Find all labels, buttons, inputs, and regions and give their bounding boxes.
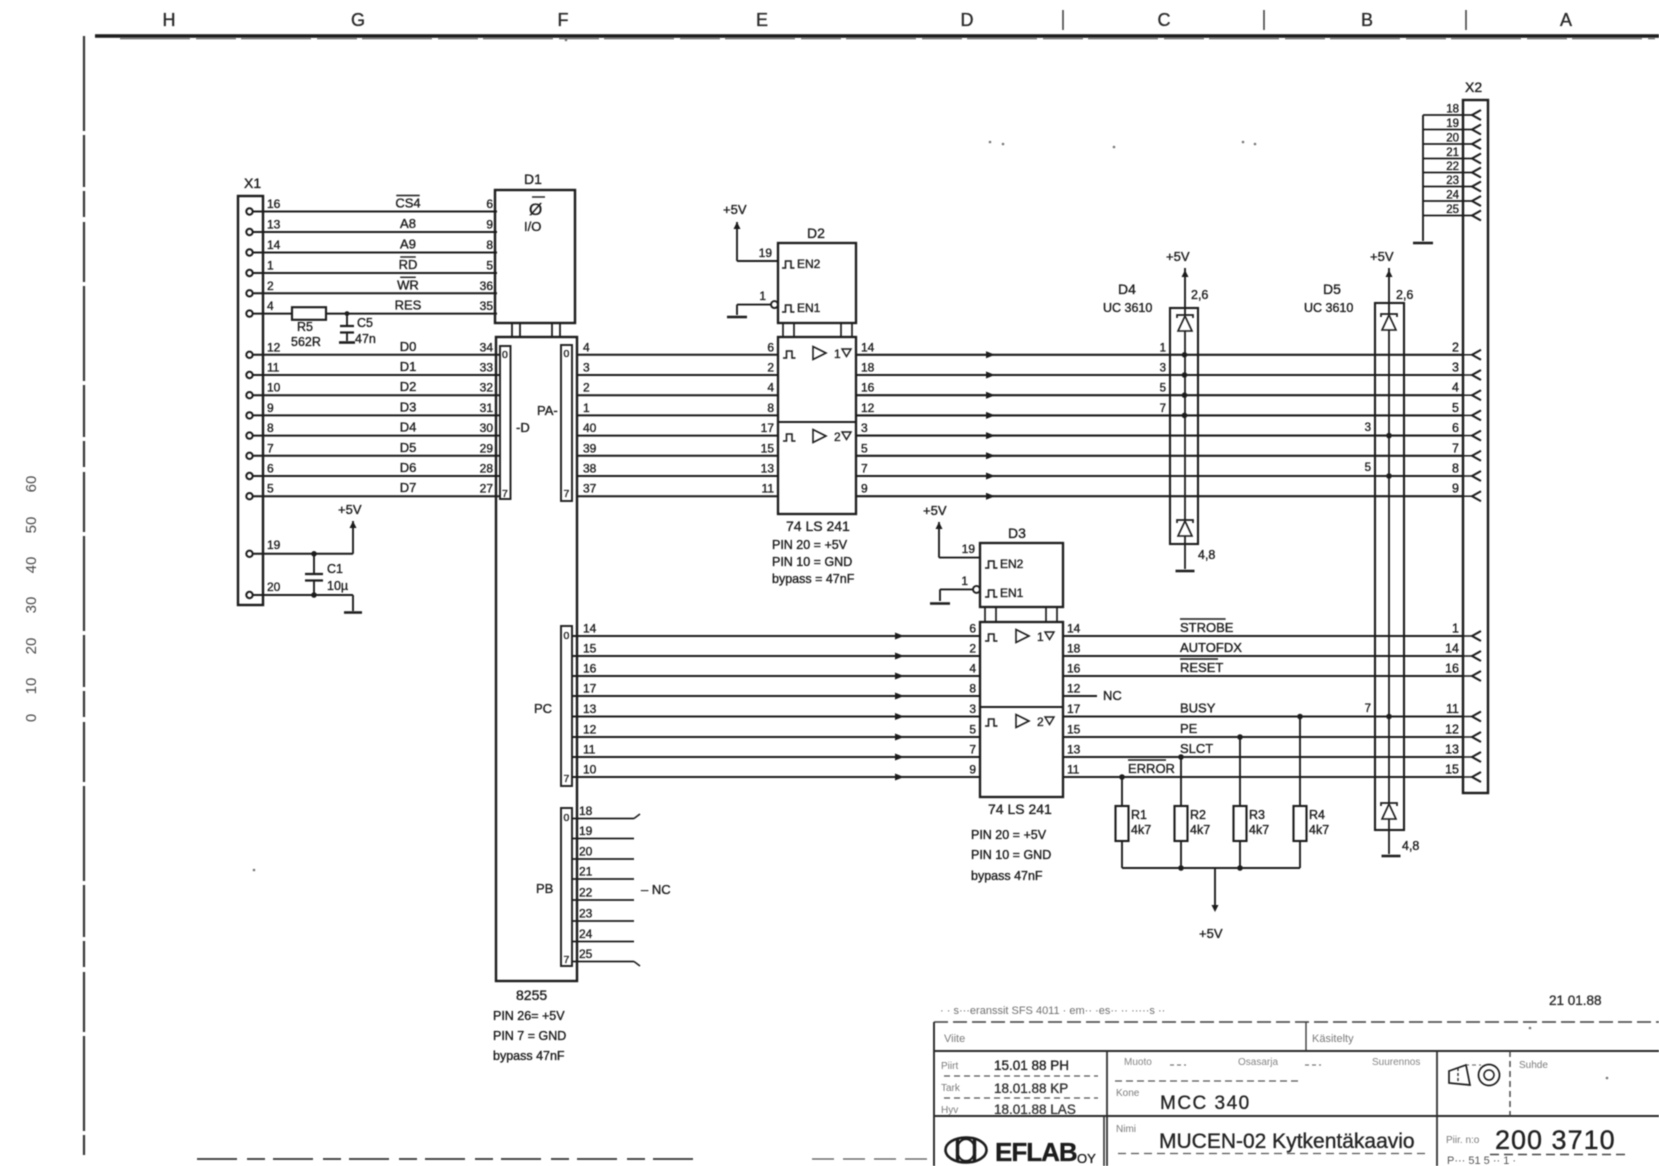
svg-text:2: 2 [767, 361, 774, 375]
svg-text:18: 18 [861, 361, 875, 375]
svg-text:18: 18 [579, 804, 593, 818]
junction D5 pin 5 [1386, 473, 1392, 479]
svg-text:11: 11 [762, 482, 775, 496]
wire D3 out 11 to X2 pin 15 [1063, 776, 1463, 778]
diode D5 lower [1381, 803, 1397, 806]
X2 data pin contact [1472, 491, 1481, 501]
X2 data pin contact [1472, 410, 1481, 420]
title block row border [934, 1050, 1659, 1052]
svg-text:6: 6 [969, 622, 976, 636]
D2 group2 buffer triangle [813, 430, 826, 443]
wire X2 pin 24 to ground bus [1423, 200, 1472, 202]
svg-text:PE: PE [1180, 721, 1198, 736]
svg-text:PB: PB [536, 881, 553, 896]
connector X1 body [238, 196, 263, 605]
D3 buffer body [980, 622, 1063, 797]
X2 status pin contact [1472, 772, 1481, 782]
svg-text:21: 21 [1446, 147, 1459, 159]
resistor R1 [1116, 806, 1129, 841]
svg-text:30: 30 [23, 597, 40, 614]
svg-text:38: 38 [583, 462, 597, 476]
X1 pin 16 contact [246, 208, 252, 214]
D2 pin 1 negation bubble [771, 301, 778, 308]
svg-text:E: E [756, 10, 768, 30]
junction R4 top [1297, 714, 1303, 720]
svg-text:20: 20 [23, 638, 40, 655]
X2 data pin contact [1472, 471, 1481, 481]
svg-text:4k7: 4k7 [1249, 823, 1269, 837]
wire direction arrow [895, 734, 904, 741]
svg-text:0: 0 [564, 812, 570, 824]
svg-text:PC: PC [534, 701, 552, 716]
svg-text:19: 19 [759, 246, 773, 260]
svg-text:29: 29 [480, 441, 494, 455]
D3 group2 tri-state symbol [1045, 717, 1054, 725]
D2 group divider [778, 421, 856, 423]
wire D1 PB pin 24 (n.c.) [572, 941, 634, 943]
D3 pin 1 negation bubble [973, 586, 980, 593]
wire X1 pin 13 to D1 (A8) [253, 231, 497, 233]
X2 pin 22 contact [1472, 168, 1481, 178]
svg-text:D0: D0 [400, 339, 417, 354]
svg-text:I/O: I/O [524, 219, 541, 234]
svg-text:D6: D6 [400, 460, 417, 475]
scan specks [989, 141, 992, 144]
svg-text:STROBE: STROBE [1180, 620, 1234, 635]
junction R2 top [1178, 754, 1184, 760]
svg-text:D4: D4 [1118, 281, 1136, 297]
svg-text:13: 13 [583, 702, 597, 716]
D2 buffer body [778, 337, 856, 514]
PB wire end tick [634, 962, 640, 967]
X1 pin 13 contact [246, 229, 252, 235]
title block top border [934, 1021, 1659, 1023]
svg-text:MUCEN-02 Kytkentäkaavio: MUCEN-02 Kytkentäkaavio [1159, 1130, 1415, 1153]
svg-text:7: 7 [1452, 441, 1459, 455]
X1 pin 11 contact [246, 372, 252, 378]
wire X1 pin 6 to D1 (D6) [253, 475, 500, 477]
svg-text:bypass = 47nF: bypass = 47nF [772, 572, 855, 586]
svg-text:BUSY: BUSY [1180, 701, 1216, 716]
svg-text:PA-: PA- [537, 403, 558, 418]
resistor R2 [1175, 806, 1188, 841]
wire direction arrow [895, 693, 904, 700]
svg-text:R1: R1 [1131, 808, 1147, 822]
svg-text:· · s···eranssit SFS 4011 ·: · · s···eranssit SFS 4011 · em·· ·es·· ·… [940, 1005, 1165, 1017]
X1 pin 4 contact [246, 310, 252, 316]
diode D4 upper [1177, 315, 1193, 318]
wire D1 PC5 to D3 [572, 736, 980, 738]
svg-text:+5V: +5V [723, 202, 747, 217]
wire rail to +5V [1214, 868, 1216, 905]
svg-text:40: 40 [583, 421, 597, 435]
svg-text:D1: D1 [524, 171, 542, 187]
wire D1 PB pin 19 (n.c.) [572, 838, 634, 840]
connector X2 body [1463, 100, 1488, 793]
wire X1 pin 5 to D1 (D7) [253, 495, 500, 497]
svg-text:7: 7 [502, 488, 508, 500]
svg-text:7: 7 [564, 954, 570, 966]
wire X2 pin 22 to ground bus [1423, 172, 1472, 174]
svg-text:PIN 20 = +5V: PIN 20 = +5V [971, 828, 1047, 842]
svg-text:UC 3610: UC 3610 [1304, 301, 1353, 315]
svg-text:14: 14 [583, 622, 597, 636]
wire X1 pin 16 to D1 (CS4) [253, 211, 497, 213]
wire D4 to ground [1184, 536, 1186, 569]
svg-text:8: 8 [486, 238, 493, 252]
border left edge [83, 36, 85, 1155]
wire R2 bottom stub [1180, 841, 1182, 868]
svg-text:9: 9 [486, 218, 493, 232]
svg-text:1: 1 [267, 259, 274, 273]
X2 status pin contact [1472, 752, 1481, 762]
wire X2 pin 18 to ground bus [1423, 114, 1472, 116]
D2 EN2 hysteresis symbol [782, 261, 795, 268]
svg-text:7: 7 [969, 743, 976, 757]
title divider dates/middle [1106, 1051, 1108, 1166]
svg-text:NC: NC [1103, 688, 1122, 703]
svg-text:18.01.88 LAS: 18.01.88 LAS [994, 1102, 1076, 1117]
wire X1 pin 1 to D1 (RD) [253, 272, 497, 274]
wire direction arrow [895, 713, 904, 720]
svg-text:PIN 10 = GND: PIN 10 = GND [772, 555, 852, 569]
D2 enable block neck [782, 323, 784, 337]
svg-text:11: 11 [267, 361, 280, 375]
svg-text:1: 1 [583, 401, 590, 415]
svg-text:UC 3610: UC 3610 [1103, 301, 1152, 315]
svg-text:PIN 26= +5V: PIN 26= +5V [493, 1009, 565, 1023]
wire X1 pin 2 to D1 (WR) [253, 292, 497, 294]
svg-text:8: 8 [267, 421, 274, 435]
wire +5V into D4 [1184, 268, 1186, 315]
wire D1 PB pin 22 (n.c.) [572, 899, 634, 901]
title divider logo/name [1103, 1116, 1105, 1166]
dates divider 1 [944, 1075, 1098, 1077]
overline CS4 [396, 195, 419, 197]
wire D2 out 16 to X2 pin 4 [856, 394, 1463, 396]
wire X1 pin 20 to ground [253, 594, 353, 596]
+5V arrow (pull-up rail) [1212, 905, 1219, 912]
X2 pin 18 contact [1472, 110, 1481, 120]
junction rail R2 [1178, 865, 1184, 871]
svg-text:D: D [961, 10, 974, 30]
svg-text:D5: D5 [1323, 281, 1341, 297]
svg-text:B: B [1361, 10, 1373, 30]
svg-text:17: 17 [1067, 702, 1081, 716]
svg-text:74 LS 241: 74 LS 241 [786, 518, 850, 534]
svg-text:+5V: +5V [338, 502, 362, 517]
D3 enable block [980, 543, 1063, 607]
wire direction arrow [986, 452, 995, 459]
X1 pin 20 contact [246, 592, 252, 598]
capacitor C1 [313, 554, 315, 573]
wire D3 pin 19 [939, 557, 980, 559]
wire D2 pin 1 to ground [736, 305, 738, 315]
X2 pin 21 contact [1472, 154, 1481, 164]
svg-text:3: 3 [1452, 361, 1459, 375]
svg-text:562R: 562R [291, 335, 321, 349]
svg-text:CS4: CS4 [395, 196, 420, 211]
svg-text:10: 10 [583, 763, 597, 777]
D3 enable block neck [984, 607, 986, 622]
+5V arrow (D5) [1386, 270, 1393, 277]
svg-text:WR: WR [397, 277, 419, 292]
svg-text:G: G [351, 10, 365, 30]
svg-text:7: 7 [564, 773, 570, 785]
wire D1 PC2 to D3 [572, 675, 980, 677]
svg-text:10: 10 [267, 381, 281, 395]
svg-text:4: 4 [1452, 381, 1459, 395]
X1 pin 5 contact [246, 493, 252, 499]
svg-text:2,6: 2,6 [1396, 288, 1413, 302]
diode D5 upper [1381, 314, 1397, 317]
svg-text:6: 6 [486, 197, 493, 211]
svg-text:200 3710: 200 3710 [1495, 1125, 1616, 1155]
X2 status pin contact [1472, 671, 1481, 681]
svg-text:1: 1 [1452, 622, 1459, 636]
svg-text:ERROR: ERROR [1128, 761, 1175, 776]
D2 group1 hysteresis [783, 351, 796, 358]
svg-text:19: 19 [1446, 118, 1459, 130]
overline ERROR [1128, 759, 1166, 761]
D2 group1 buffer triangle [813, 347, 826, 360]
svg-text:Suhde: Suhde [1519, 1060, 1548, 1071]
junction D4 pin 7 [1182, 413, 1188, 419]
svg-text:2: 2 [1037, 715, 1044, 729]
D1 port box PB [561, 808, 572, 966]
svg-text:24: 24 [579, 927, 593, 941]
X2 status pin contact [1472, 631, 1481, 641]
junction C5 on RES wire [345, 311, 350, 316]
wire D3 out 18 to X2 pin 14 [1063, 655, 1463, 657]
wire D2 pin 1 [737, 304, 771, 306]
svg-text:30: 30 [480, 421, 494, 435]
wire X1 pin 12 to D1 (D0) [253, 354, 500, 356]
svg-text:EN1: EN1 [797, 301, 821, 315]
svg-text:12: 12 [861, 401, 875, 415]
svg-text:18.01.88 KP: 18.01.88 KP [994, 1081, 1068, 1096]
svg-text:14: 14 [861, 340, 875, 354]
overline RD [400, 256, 416, 258]
svg-text:2,6: 2,6 [1191, 288, 1208, 302]
X2 data pin contact [1472, 390, 1481, 400]
svg-text:16: 16 [1067, 662, 1081, 676]
svg-text:20: 20 [1446, 133, 1459, 145]
wire direction arrow [895, 653, 904, 660]
junction D4 pin 3 [1182, 372, 1188, 378]
junction R3 top [1237, 734, 1243, 740]
svg-text:9: 9 [267, 401, 274, 415]
wire D3 pin 12 (n.c.) [1063, 695, 1097, 697]
wire D1 PB pin 25 (n.c.) [572, 961, 634, 963]
svg-text:28: 28 [480, 462, 494, 476]
wire X2 pin 25 to ground bus [1423, 215, 1472, 217]
svg-text:20: 20 [579, 845, 593, 859]
svg-text:40: 40 [23, 557, 40, 574]
svg-text:36: 36 [480, 279, 494, 293]
svg-text:6: 6 [267, 462, 274, 476]
resistor R5 [292, 307, 326, 320]
svg-text:D2: D2 [400, 379, 417, 394]
svg-text:+5V: +5V [1166, 249, 1190, 264]
svg-text:PIN 20 = +5V: PIN 20 = +5V [772, 538, 848, 552]
svg-text:X1: X1 [244, 175, 261, 191]
border top ruler line [95, 34, 1659, 37]
wire D2 out 7 to X2 pin 8 [856, 475, 1463, 477]
wire R1 bottom stub [1121, 841, 1123, 868]
D1 data-bus port box D [500, 346, 511, 499]
name underline [1118, 1153, 1428, 1155]
ground (X2 pins 18-25) [1413, 242, 1433, 245]
svg-text:4: 4 [767, 381, 774, 395]
svg-text:4: 4 [267, 299, 274, 313]
svg-text:4k7: 4k7 [1190, 823, 1210, 837]
svg-text:4: 4 [583, 340, 590, 354]
title divider name/number [1436, 1051, 1438, 1166]
ground (D5) [1382, 855, 1401, 858]
wire D1 PB pin 18 (n.c.) [572, 818, 634, 820]
dates divider 2 [944, 1097, 1098, 1099]
wire D3 out 15 to X2 pin 12 [1063, 736, 1463, 738]
wire D3 out 14 to X2 pin 1 [1063, 635, 1463, 637]
svg-text:15: 15 [583, 642, 597, 656]
wire D3 pin 1 to ground [939, 589, 941, 601]
svg-text:1: 1 [834, 347, 841, 361]
svg-text:11: 11 [1067, 763, 1080, 777]
wire D1 PA2 to D2 [577, 394, 778, 396]
svg-text:0: 0 [502, 349, 508, 361]
svg-text:13: 13 [761, 462, 775, 476]
svg-text:25: 25 [579, 947, 593, 961]
D3 EN1 hysteresis symbol [985, 590, 998, 597]
svg-text:14: 14 [267, 238, 281, 252]
X1 pin 14 contact [246, 249, 252, 255]
wire +5V to D3 pin 19 [938, 522, 940, 558]
svg-text:P··· 51 5 ·· 1 ·: P··· 51 5 ·· 1 · [1447, 1155, 1516, 1166]
svg-text:7: 7 [1160, 403, 1166, 415]
junction R1 top [1119, 774, 1125, 780]
svg-text:15: 15 [761, 441, 775, 455]
svg-text:D4: D4 [400, 420, 417, 435]
svg-text:Ø: Ø [529, 200, 542, 219]
wire D1 PC7 to D3 [572, 776, 980, 778]
svg-text:bypass 47nF: bypass 47nF [971, 869, 1043, 883]
IC D5 body [1375, 303, 1404, 830]
svg-text:23: 23 [579, 907, 593, 921]
svg-text:A: A [1560, 10, 1572, 30]
svg-text:OY: OY [1077, 1151, 1096, 1166]
svg-text:Suurennos: Suurennos [1372, 1057, 1420, 1068]
svg-text:33: 33 [480, 361, 494, 375]
svg-text:19: 19 [962, 542, 976, 556]
wire X2 pin 23 to ground bus [1423, 186, 1472, 188]
wire D1 PA3 to D2 [577, 414, 778, 416]
wire R1 top stub [1121, 777, 1123, 806]
svg-text:D1: D1 [400, 359, 417, 374]
svg-text:74 LS 241: 74 LS 241 [988, 801, 1052, 817]
wire D2 out 14 to X2 pin 2 [856, 354, 1463, 356]
svg-text:RES: RES [395, 298, 422, 313]
D3 group divider [980, 706, 1063, 708]
D1 port box PA [561, 345, 572, 501]
X1 pin 8 contact [246, 432, 252, 438]
D3 group1 tri-state symbol [1045, 632, 1054, 640]
svg-text:19: 19 [267, 538, 281, 552]
D2 EN1 hysteresis symbol [782, 305, 795, 312]
svg-text:10µ: 10µ [327, 579, 348, 593]
svg-text:6: 6 [767, 340, 774, 354]
svg-text:3: 3 [969, 702, 976, 716]
D3 group1 buffer triangle [1016, 630, 1029, 643]
svg-text:50: 50 [23, 517, 40, 534]
svg-text:8: 8 [969, 682, 976, 696]
wire D1 PA0 to D2 [577, 354, 778, 356]
wire +5V into D5 [1388, 268, 1390, 314]
resistor R4 [1294, 806, 1307, 841]
PB wire end tick [634, 814, 640, 819]
svg-text:D2: D2 [807, 225, 825, 241]
svg-text:17: 17 [583, 682, 597, 696]
svg-text:14: 14 [1067, 622, 1081, 636]
X2 data pin contact [1472, 370, 1481, 380]
svg-text:10: 10 [23, 678, 40, 695]
wire D1 PC3 to D3 [572, 695, 980, 697]
wire R3 top stub [1239, 737, 1241, 806]
svg-text:C: C [1158, 10, 1171, 30]
svg-text:18: 18 [1067, 642, 1081, 656]
svg-text:X2: X2 [1465, 79, 1482, 95]
wire X1 pin 19 to +5V [253, 553, 353, 555]
svg-text:34: 34 [480, 340, 494, 354]
svg-text:Tark: Tark [941, 1083, 961, 1094]
svg-text:12: 12 [1067, 682, 1081, 696]
projection symbol cone [1449, 1065, 1470, 1085]
svg-text:+5V: +5V [923, 503, 947, 518]
svg-text:A9: A9 [400, 237, 416, 252]
junction rail R3 [1237, 865, 1243, 871]
svg-text:47n: 47n [355, 332, 376, 346]
svg-text:39: 39 [583, 441, 597, 455]
X2 pin 24 contact [1472, 196, 1481, 206]
svg-text:21 01.88: 21 01.88 [1549, 993, 1602, 1008]
X1 pin 1 contact [246, 270, 252, 276]
svg-text:2: 2 [834, 430, 841, 444]
wire direction arrow [986, 412, 995, 419]
svg-text:Kone: Kone [1116, 1088, 1140, 1099]
border bottom edge [197, 1158, 700, 1160]
junction D5 pin 3 [1386, 433, 1392, 439]
D5 internal rail [1388, 330, 1390, 803]
X2 data pin contact [1472, 350, 1481, 360]
wire direction arrow [895, 754, 904, 761]
svg-text:0: 0 [23, 714, 40, 722]
X2 pin 23 contact [1472, 182, 1481, 192]
svg-text:5: 5 [1160, 383, 1166, 395]
svg-text:R3: R3 [1249, 808, 1265, 822]
svg-text:D5: D5 [400, 440, 417, 455]
X2 data pin contact [1472, 431, 1481, 441]
wire direction arrow [986, 432, 995, 439]
junction C1 top [311, 551, 317, 557]
svg-text:-D: -D [516, 420, 530, 435]
ground (D2 pin 1) [727, 316, 747, 319]
svg-text:15: 15 [1067, 723, 1081, 737]
svg-text:11: 11 [583, 743, 596, 757]
D4 internal rail [1184, 331, 1186, 520]
svg-text:– NC: – NC [641, 882, 671, 897]
wire direction arrow [986, 372, 995, 379]
X1 pin 12 contact [246, 352, 252, 358]
